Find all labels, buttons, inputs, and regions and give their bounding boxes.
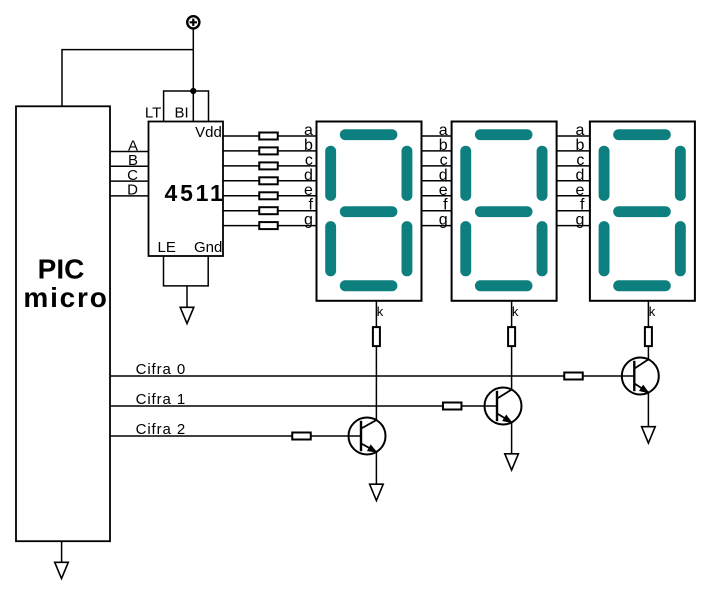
resistor R3: [259, 162, 278, 169]
wire PIC ground: [61, 541, 63, 562]
DS1 segment d: [340, 280, 398, 291]
resistor R4: [259, 177, 278, 184]
wire segment d stage2: [422, 180, 452, 182]
wire segment g stage1: [223, 225, 317, 227]
wire segment b stage3: [557, 150, 590, 152]
transistor Q1: [349, 418, 386, 455]
wire segment c stage1: [223, 165, 317, 167]
svg-text:BI: BI: [175, 104, 189, 121]
svg-text:k: k: [377, 304, 384, 319]
wire DS1 cathode lower: [375, 346, 377, 420]
wire segment b stage2: [422, 150, 452, 152]
display DS3 body: [590, 122, 695, 301]
wire Cifra 2: [110, 435, 361, 437]
DS1 segment f: [325, 146, 336, 201]
display DS2 body: [452, 122, 557, 301]
wire DS1 cathode upper: [375, 301, 377, 327]
wire input B: [110, 165, 149, 167]
DS3 segment a: [613, 129, 671, 140]
transistor Q3: [622, 358, 659, 395]
power symbol +V supply: [187, 16, 199, 28]
wire power vertical: [192, 29, 194, 91]
wire power to PIC: [62, 50, 193, 107]
wire segment e stage2: [422, 195, 452, 197]
wire segment d stage1: [223, 180, 317, 182]
svg-text:LT: LT: [145, 104, 161, 121]
DS3 segment e: [599, 221, 610, 276]
wire segment a stage1: [223, 135, 317, 137]
svg-text:LE: LE: [158, 239, 176, 256]
resistor R5: [259, 192, 278, 199]
DS1 segment e: [325, 221, 336, 276]
DS1 segment b: [402, 146, 413, 201]
wire segment b stage1: [223, 150, 317, 152]
svg-text:g: g: [439, 212, 448, 229]
resistor R6: [259, 207, 278, 214]
svg-text:PIC: PIC: [38, 253, 85, 284]
DS3 segment b: [675, 146, 686, 201]
wire input A: [110, 151, 149, 153]
wire DS3 cathode lower: [647, 346, 649, 359]
IC U1 PIC micro box: [16, 106, 110, 541]
wire input D: [110, 195, 149, 197]
DS1 segment c: [402, 221, 413, 276]
wire segment c stage3: [557, 165, 590, 167]
wire DS2 cathode upper: [511, 301, 513, 327]
svg-text:g: g: [575, 212, 584, 229]
DS1 segment g: [340, 206, 398, 217]
DS2 segment b: [537, 146, 548, 201]
svg-text:Cifra 1: Cifra 1: [136, 391, 186, 408]
wire BI pin: [192, 91, 194, 122]
wire Cifra 0: [110, 375, 634, 377]
svg-text:4511: 4511: [165, 180, 226, 206]
resistor R2: [259, 147, 278, 154]
wire Gnd to ground: [186, 286, 188, 307]
wire segment g stage3: [557, 225, 590, 227]
DS1 segment a: [340, 129, 398, 140]
svg-text:k: k: [512, 304, 519, 319]
ground Q3: [642, 427, 656, 443]
DS3 segment f: [599, 146, 610, 201]
wire LE pin: [164, 256, 209, 286]
resistor R10 DS3 cathode: [645, 327, 652, 346]
wire input C: [110, 180, 149, 182]
svg-text:k: k: [649, 304, 656, 319]
resistor R9 DS2 cathode: [508, 327, 515, 346]
DS2 segment d: [475, 280, 533, 291]
wire Q1 emitter: [375, 452, 377, 484]
wire segment g stage2: [422, 225, 452, 227]
wire segment e stage1: [223, 195, 317, 197]
display DS1 body: [317, 122, 422, 301]
DS2 segment f: [460, 146, 471, 201]
wire segment a stage3: [557, 135, 590, 137]
svg-text:micro: micro: [23, 282, 108, 313]
wire Q3 emitter: [647, 393, 649, 427]
wire segment f stage2: [422, 210, 452, 212]
resistor R11 Q3 base: [564, 373, 583, 380]
resistor R8 DS1 cathode: [373, 327, 380, 346]
wire segment c stage2: [422, 165, 452, 167]
wire segment f stage3: [557, 210, 590, 212]
DS2 segment c: [537, 221, 548, 276]
resistor R12 Q2 base: [443, 403, 462, 410]
ground PIC: [55, 562, 69, 578]
DS2 segment a: [475, 129, 533, 140]
transistor Q2: [485, 388, 522, 425]
DS2 segment g: [475, 206, 533, 217]
svg-text:g: g: [304, 212, 313, 229]
wire LT-BI-Vdd tie loop: [164, 91, 209, 122]
wire segment f stage1: [223, 210, 317, 212]
DS2 segment e: [460, 221, 471, 276]
DS3 segment g: [613, 206, 671, 217]
svg-text:Vdd: Vdd: [195, 124, 222, 141]
wire segment d stage3: [557, 180, 590, 182]
resistor R1: [259, 133, 278, 140]
ground Q1: [370, 484, 384, 500]
svg-text:Cifra 0: Cifra 0: [136, 361, 186, 378]
svg-text:Gnd: Gnd: [194, 239, 222, 256]
wire Cifra 1: [110, 405, 497, 407]
junction dot power tie: [190, 88, 196, 94]
ground 4511: [180, 307, 194, 323]
wire DS3 cathode upper: [647, 301, 649, 327]
wire segment a stage2: [422, 135, 452, 137]
wire segment e stage3: [557, 195, 590, 197]
DS3 segment d: [613, 280, 671, 291]
ground Q2: [505, 454, 519, 470]
wire DS2 cathode lower: [511, 346, 513, 390]
DS3 segment c: [675, 221, 686, 276]
svg-text:Cifra 2: Cifra 2: [136, 421, 186, 438]
resistor R7: [259, 222, 278, 229]
wire Q2 emitter: [511, 422, 513, 453]
resistor R13 Q1 base: [292, 433, 311, 440]
IC U2 4511 box: [149, 122, 224, 257]
svg-text:D: D: [127, 182, 138, 199]
